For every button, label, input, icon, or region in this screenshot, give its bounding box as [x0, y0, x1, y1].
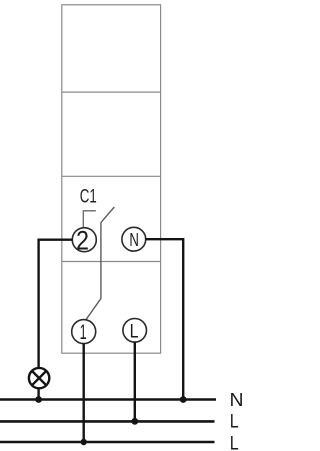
switch C1 fixed contact stub [83, 211, 96, 229]
bus line N [0, 398, 216, 401]
junction dot terminal1/L2 bus [81, 439, 87, 445]
svg-text:L: L [230, 434, 239, 451]
svg-text:C1: C1 [80, 186, 97, 208]
lamp E1 [29, 368, 49, 388]
svg-text:N: N [230, 390, 243, 410]
svg-text:N: N [129, 230, 139, 250]
terminal L [123, 319, 147, 343]
device section divider 3 [62, 261, 161, 263]
bus line L1 [0, 420, 215, 423]
terminal 1 [72, 320, 96, 344]
junction dot right/N bus [180, 396, 187, 403]
wire from lamp to N bus [37, 389, 39, 400]
junction dot lamp/N bus [35, 396, 42, 403]
device outline (timer module) [62, 5, 161, 353]
wire from terminal 1 to bottom L bus [82, 344, 84, 443]
wire from terminal 2 to lamp [39, 240, 73, 368]
wire from terminal L to L bus [134, 342, 136, 421]
wire from terminal N to N bus [146, 239, 184, 400]
svg-text:2: 2 [76, 226, 89, 256]
device section divider 2 [62, 175, 161, 177]
svg-text:L: L [130, 320, 139, 342]
terminal N [122, 227, 146, 251]
svg-text:L: L [230, 412, 239, 433]
bus line L2 [0, 441, 215, 444]
device section divider 1 [62, 91, 161, 93]
switch C1 moving contact lever [86, 207, 114, 319]
terminal 2 [72, 226, 96, 256]
junction dot terminalL/L bus [131, 418, 138, 425]
svg-text:1: 1 [80, 320, 87, 344]
